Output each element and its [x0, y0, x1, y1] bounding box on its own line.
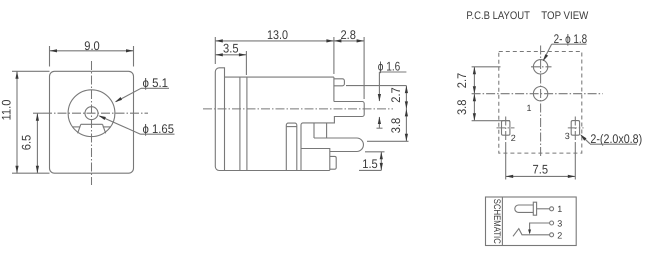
svg-text:6.5: 6.5	[20, 135, 34, 151]
svg-text:1.5: 1.5	[362, 157, 378, 171]
svg-text:2.7: 2.7	[455, 73, 469, 89]
svg-text:3.5: 3.5	[223, 42, 239, 56]
svg-text:ϕ 1.6: ϕ 1.6	[378, 60, 401, 74]
svg-text:2: 2	[511, 133, 516, 143]
svg-text:11.0: 11.0	[0, 99, 14, 120]
svg-text:1: 1	[557, 204, 562, 214]
svg-text:SCHEMATIC: SCHEMATIC	[491, 199, 502, 244]
svg-text:2: 2	[557, 230, 562, 240]
svg-text:TOP VIEW: TOP VIEW	[541, 10, 589, 22]
svg-text:2.8: 2.8	[340, 28, 356, 42]
svg-text:3: 3	[565, 131, 570, 141]
svg-text:9.0: 9.0	[84, 39, 100, 53]
svg-text:3.8: 3.8	[389, 118, 403, 134]
svg-text:13.0: 13.0	[267, 28, 288, 42]
svg-text:3: 3	[557, 218, 562, 228]
svg-text:7.5: 7.5	[533, 163, 549, 177]
svg-text:2.7: 2.7	[389, 87, 403, 103]
svg-text:P.C.B LAYOUT: P.C.B LAYOUT	[466, 10, 530, 22]
svg-text:1: 1	[527, 103, 532, 113]
svg-text:3.8: 3.8	[455, 100, 469, 116]
